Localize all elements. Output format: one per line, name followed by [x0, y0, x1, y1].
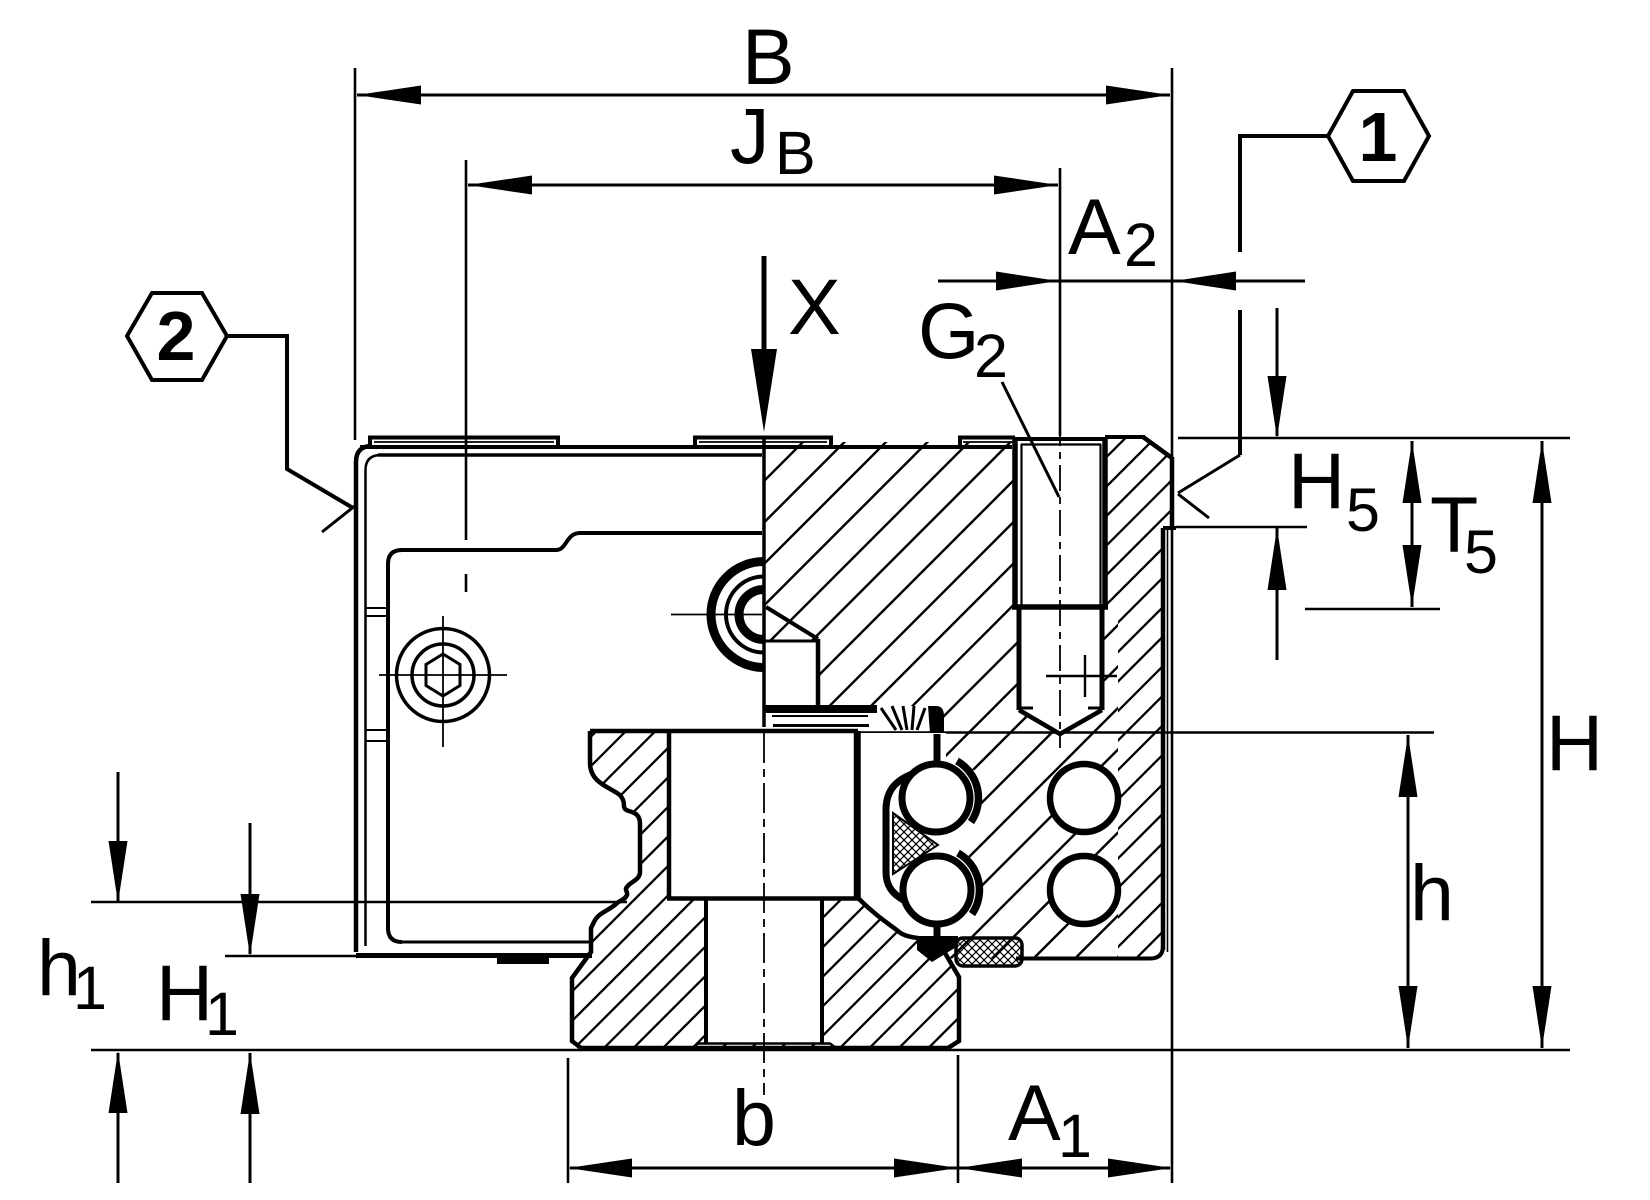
svg-text:1: 1	[73, 954, 107, 1022]
ext B left	[354, 68, 357, 440]
svg-text:2: 2	[157, 297, 196, 375]
svg-text:A: A	[1068, 182, 1121, 271]
left raceway crescents	[957, 761, 978, 822]
svg-text:G: G	[918, 286, 979, 375]
balls	[902, 764, 970, 832]
svg-text:X: X	[788, 262, 841, 351]
svg-text:B: B	[742, 12, 795, 101]
svg-text:2: 2	[1124, 211, 1158, 279]
svg-text:A: A	[1008, 1068, 1061, 1157]
ext B/A2/A1 right	[1171, 68, 1174, 1183]
ext top surface right	[1178, 437, 1570, 440]
svg-text:H: H	[1288, 436, 1345, 525]
shank hole	[704, 899, 708, 1043]
svg-text:1: 1	[1058, 1102, 1092, 1170]
H5 arrows	[1268, 376, 1287, 438]
ext JB/A2	[1059, 168, 1062, 436]
ext T5 bottom	[1305, 608, 1440, 611]
rail outline strokes	[572, 731, 959, 1048]
saddle inner contour	[388, 533, 762, 942]
ext b left	[567, 1058, 570, 1183]
dim H1	[249, 823, 252, 954]
X arrow	[751, 349, 777, 432]
bottom lip tab	[497, 957, 549, 964]
svg-text:1: 1	[205, 980, 239, 1048]
h1 arrows	[109, 841, 128, 903]
crosshatch diamond between balls	[893, 813, 938, 874]
svg-text:b: b	[732, 1073, 776, 1162]
A2 arrows	[996, 272, 1058, 291]
H1 arrows	[241, 894, 260, 956]
dim JB	[468, 184, 1058, 187]
outer profile	[356, 446, 372, 952]
G2 leader	[1002, 382, 1059, 497]
svg-text:h: h	[1410, 848, 1454, 937]
ext JB left	[465, 160, 468, 540]
b arrows	[568, 1159, 632, 1178]
centerline of G2 hole	[1059, 420, 1061, 748]
ext h1 top	[91, 901, 627, 904]
X arrow line	[762, 256, 767, 352]
end plate parting ticks	[365, 608, 388, 741]
svg-text:B: B	[775, 119, 816, 187]
dim h1	[117, 772, 120, 901]
T5 arrows	[1403, 441, 1422, 503]
drill cross	[1046, 675, 1117, 677]
seal bar verticals	[934, 734, 941, 766]
G2 hole white	[1015, 436, 1105, 733]
svg-text:1: 1	[1359, 98, 1398, 176]
h arrows	[1399, 735, 1418, 797]
counterbore	[667, 731, 672, 898]
svg-text:H: H	[1546, 698, 1603, 787]
dim H	[1541, 441, 1544, 1048]
G2 hole strokes	[1012, 420, 1117, 748]
rail centerline	[763, 733, 765, 1095]
dim A2	[938, 280, 1305, 283]
end plate inner line	[366, 455, 382, 946]
ext H5 step	[1176, 526, 1307, 529]
dim H5	[1276, 308, 1279, 436]
svg-text:2: 2	[974, 322, 1008, 390]
dim h	[1407, 735, 1410, 1048]
cage	[886, 772, 918, 906]
A1 arrows	[958, 1159, 1022, 1178]
B arrows	[357, 86, 421, 105]
ext ground	[91, 1049, 1570, 1052]
svg-text:J: J	[730, 91, 770, 180]
H arrows	[1533, 441, 1552, 503]
ext b/A1	[957, 1055, 960, 1183]
top tabs	[370, 438, 1015, 448]
bottom recess	[692, 1044, 836, 1049]
svg-text:5: 5	[1464, 518, 1498, 586]
ext H1 top	[225, 955, 358, 958]
JB arrows	[468, 176, 532, 195]
main top line	[360, 445, 1012, 449]
ext h top	[860, 731, 1434, 734]
dim T5	[1411, 441, 1414, 607]
seal fan	[881, 708, 896, 730]
dim b + A1	[570, 1167, 1170, 1170]
svg-text:5: 5	[1346, 476, 1380, 544]
dim B	[357, 94, 1170, 97]
